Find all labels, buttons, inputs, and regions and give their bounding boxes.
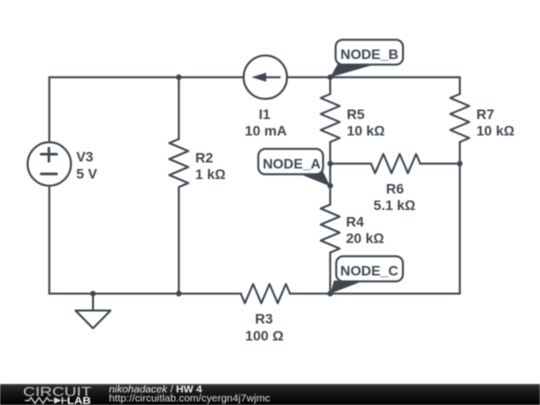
junction node dot NODE_A attach	[327, 183, 333, 189]
svg-text:5 V: 5 V	[76, 165, 98, 181]
svg-text:1 kΩ: 1 kΩ	[195, 166, 225, 182]
junction node dot R6 left	[327, 161, 333, 167]
current source I1 circle	[244, 55, 287, 98]
resistor R2 branch top lead	[178, 77, 180, 139]
resistor R7 bottom lead	[459, 142, 461, 164]
wire right vertical: bottom corner to R6/R7 junction	[459, 164, 461, 294]
junction node dot R2 bottom	[176, 291, 182, 297]
node NODE_A callout box	[258, 149, 323, 174]
voltage source V3 circle	[28, 142, 71, 185]
V3 plus sign	[41, 148, 56, 161]
svg-text:R5: R5	[347, 106, 365, 122]
footer bar background	[0, 384, 540, 405]
resistor R4 body	[321, 205, 340, 253]
resistor R4 bottom lead to NODE_C	[329, 253, 331, 294]
junction node dot R2 top	[176, 74, 182, 80]
I1 arrow head	[252, 73, 267, 82]
resistor R2 bottom lead	[178, 187, 180, 294]
svg-text:LAB: LAB	[67, 396, 91, 405]
node NODE_B callout tail	[330, 64, 371, 78]
wire bottom right: R3 to bottom right corner	[290, 293, 460, 295]
wire top right: I1 right to R7 top	[287, 76, 460, 78]
wire R6 left lead	[330, 163, 371, 165]
resistor R5 body	[321, 94, 340, 142]
ground symbol stem	[92, 294, 94, 311]
svg-text:NODE_B: NODE_B	[340, 46, 398, 62]
node NODE_B callout box	[336, 40, 403, 65]
svg-text:R4: R4	[346, 213, 364, 229]
svg-text:10 kΩ: 10 kΩ	[476, 122, 514, 138]
junction node dot NODE_B	[327, 74, 333, 80]
resistor R6 body	[371, 154, 420, 173]
I1 arrow shaft	[262, 76, 280, 78]
junction node dot NODE_C	[327, 291, 333, 297]
resistor R7 top lead	[459, 77, 461, 94]
wire bottom left: to R3	[49, 293, 241, 295]
svg-text:5.1 kΩ: 5.1 kΩ	[374, 197, 416, 213]
wire R6 right lead	[420, 163, 460, 165]
node NODE_A callout tail	[296, 171, 330, 187]
ground symbol triangle	[76, 311, 111, 329]
junction node dot R6 right R7 bottom	[457, 161, 463, 167]
svg-text:http://circuitlab.com/cyergn4j: http://circuitlab.com/cyergn4j7wjmc	[109, 394, 270, 405]
svg-text:10 kΩ: 10 kΩ	[347, 122, 385, 138]
resistor R7 body	[450, 94, 469, 142]
svg-text:V3: V3	[76, 149, 93, 165]
resistor R3 body	[241, 284, 290, 303]
CircuitLab logo zigzag resistor	[25, 398, 53, 404]
svg-text:NODE_C: NODE_C	[340, 263, 398, 279]
resistor R5 top lead from NODE_B	[329, 77, 331, 94]
resistor R2 body	[169, 139, 188, 187]
svg-text:R3: R3	[255, 310, 273, 326]
node NODE_C callout box	[336, 256, 403, 281]
V3 minus sign	[41, 173, 56, 176]
CircuitLab logo diode arrow	[54, 397, 62, 403]
svg-text:R6: R6	[386, 181, 404, 197]
svg-text:NODE_A: NODE_A	[263, 155, 321, 171]
svg-text:20 kΩ: 20 kΩ	[346, 230, 384, 246]
svg-text:10 mA: 10 mA	[245, 122, 287, 138]
wire R5 bottom to node A segment	[329, 142, 331, 205]
svg-text:R7: R7	[476, 106, 494, 122]
wire top left: V3 top to I1 left	[49, 76, 243, 78]
node NODE_C callout tail	[330, 281, 363, 294]
svg-text:100 Ω: 100 Ω	[245, 328, 283, 344]
wire left vertical upper: top corner to V3	[48, 77, 50, 142]
svg-text:I1: I1	[259, 106, 271, 122]
svg-text:R2: R2	[195, 150, 213, 166]
junction node dot ground	[90, 291, 96, 297]
wire left vertical lower: V3 to bottom wire	[48, 186, 50, 294]
